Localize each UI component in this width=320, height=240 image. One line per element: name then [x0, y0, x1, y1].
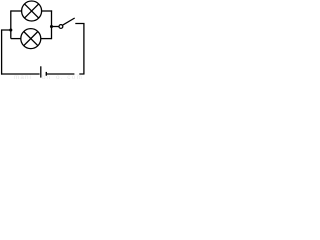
- wire lamp1 left lead: [11, 10, 22, 12]
- node junction left: [9, 28, 12, 31]
- wire bottom left segment: [1, 73, 40, 75]
- wire switch fixed side to right vertical: [75, 24, 84, 75]
- battery B1 long plate: [40, 66, 42, 77]
- switch S1 stub: [52, 26, 59, 28]
- lamp L2: [21, 29, 41, 49]
- wire lamp1 right lead: [42, 10, 53, 12]
- wire bottom right segment: [46, 73, 84, 75]
- wire lamp2 left lead: [11, 38, 21, 40]
- wire left branch to outer left and down: [2, 30, 11, 75]
- watermark: [14, 74, 83, 81]
- switch S1 pivot circle: [59, 25, 63, 29]
- watermark white punch over wire: [74, 73, 79, 75]
- wire right vertical: [51, 10, 53, 39]
- switch S1 blade: [63, 18, 75, 25]
- battery B1 short plate: [45, 72, 47, 76]
- lamp L1: [22, 1, 42, 21]
- node junction right: [50, 25, 53, 28]
- wire lamp2 right lead: [41, 38, 52, 40]
- wire left vertical: [10, 10, 12, 38]
